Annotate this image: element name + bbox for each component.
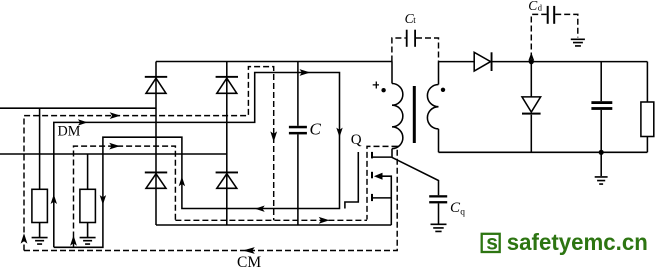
CM path arrow right (outer top run) — [110, 112, 121, 119]
CM path arrow right (toward switch box) — [319, 217, 330, 224]
MOSFET Q source connection — [372, 197, 391, 199]
CM path arrow down (through bridge branch) — [270, 131, 277, 142]
transformer T1 secondary winding — [427, 85, 438, 129]
resistor R-LISN2 lead — [87, 154, 89, 189]
capacitor Cd dashed leads — [531, 14, 578, 58]
wire D5 to load — [492, 61, 647, 63]
diode D1 cathode bar — [145, 76, 167, 78]
wire secondary top to output — [439, 52, 648, 71]
transformer T1 secondary lead — [427, 62, 438, 153]
MOSFET Q body connection — [377, 176, 391, 225]
ground under Cd — [571, 39, 585, 46]
node output bottom dot — [599, 150, 604, 155]
wire bridge left column — [155, 62, 157, 226]
transformer T1 primary winding — [392, 84, 403, 149]
ground under R-LISN2 — [80, 223, 96, 245]
capacitor Cout lead — [600, 62, 602, 153]
wire CM bottom — [24, 146, 397, 250]
svg-text:q: q — [460, 208, 465, 218]
CM path arrow right (inner top run) — [109, 143, 120, 150]
diode D5 cathode bar — [491, 52, 493, 71]
transformer T1 primary dot — [381, 88, 385, 92]
diode D2 cathode bar — [216, 76, 238, 78]
capacitor C plates — [289, 126, 307, 135]
svg-text:CM: CM — [237, 254, 261, 268]
resistor Rload — [641, 102, 654, 137]
svg-text:t: t — [413, 15, 416, 25]
svg-text:C: C — [528, 0, 538, 13]
diode D3 cathode bar — [145, 172, 167, 174]
capacitor C branch wires — [297, 62, 299, 226]
svg-text:Q: Q — [351, 132, 362, 148]
node output dot — [529, 59, 534, 64]
wire drain to Cq diagonal — [391, 157, 438, 224]
ground under Cq — [431, 224, 447, 231]
svg-text:safetyemc.cn: safetyemc.cn — [507, 229, 648, 255]
DM path arrow up (beside R-LISN1) — [51, 194, 57, 204]
DM path arrow left (return through bridge) — [255, 206, 265, 212]
wire bridge right column — [226, 62, 228, 226]
wire CM inner loop — [74, 146, 176, 246]
wire CM middle horizontal — [175, 219, 367, 221]
MOSFET Q channel bars — [371, 152, 373, 201]
capacitor Cq plates — [429, 195, 447, 203]
diode D5 triangle — [474, 52, 490, 71]
capacitor Ct plates — [406, 30, 416, 47]
diode D3 triangle — [146, 174, 166, 189]
wire bridge top rail — [156, 61, 392, 63]
capacitor Cout plates — [591, 101, 612, 110]
svg-text:C: C — [310, 120, 322, 139]
diode D6 vertical wires — [522, 62, 541, 153]
MOSFET Q body arrow — [374, 173, 383, 180]
svg-text:DM: DM — [58, 124, 81, 140]
resistor R-LISN2 — [80, 189, 96, 222]
ground output — [595, 152, 608, 184]
logo safetyemc box — [482, 234, 500, 252]
DM path arrow up (bridge return riser) — [179, 177, 185, 187]
capacitor Ct dashed leads — [392, 38, 439, 62]
DM noise path loop (solid) — [54, 73, 340, 248]
wire output bottom rail — [439, 151, 648, 153]
resistor R-LISN1 — [32, 189, 48, 222]
DM path arrow down (beside R-LISN2) — [100, 195, 106, 205]
resistor Rload leads — [439, 62, 654, 153]
svg-text:s: s — [486, 231, 498, 254]
resistor R-LISN1 lead — [39, 108, 41, 189]
transformer T1 secondary dot — [441, 88, 445, 92]
diode D4 triangle — [217, 174, 237, 189]
MOSFET Q drain connection — [372, 156, 391, 158]
diode D2 triangle — [217, 78, 237, 93]
wire AC line N (bottom input) — [0, 153, 227, 155]
CM path arrow up (inner left leg) — [70, 235, 77, 246]
diode D6 triangle — [522, 97, 541, 112]
transformer T1 core — [413, 86, 416, 143]
transformer T1 primary lead — [392, 62, 403, 158]
diode D4 cathode bar — [216, 172, 238, 174]
wire CM outer loop — [24, 67, 274, 251]
ground under R-LISN1 — [32, 223, 48, 245]
DM path arrow right (above DM label) — [78, 119, 88, 125]
wire AC line L (top input) — [0, 107, 156, 109]
DM path arrow down (at switch branch) — [336, 128, 342, 138]
CM path arrow up (outer left leg) — [21, 233, 28, 243]
diode D6 cathode bar — [522, 113, 541, 115]
MOSFET Q gate — [345, 152, 391, 225]
arrow into node on Cd dashed lead — [528, 53, 534, 61]
label + polarity — [373, 82, 379, 89]
svg-text:d: d — [538, 2, 543, 12]
CM path arrow left (earth return run) — [243, 247, 255, 254]
capacitor Cd plates — [547, 6, 556, 24]
wire bridge bottom rail — [156, 224, 391, 226]
diode D1 triangle — [146, 78, 166, 93]
CM noise path (dashed) — [24, 67, 397, 251]
DM path arrow right (toward transformer) — [300, 69, 311, 76]
